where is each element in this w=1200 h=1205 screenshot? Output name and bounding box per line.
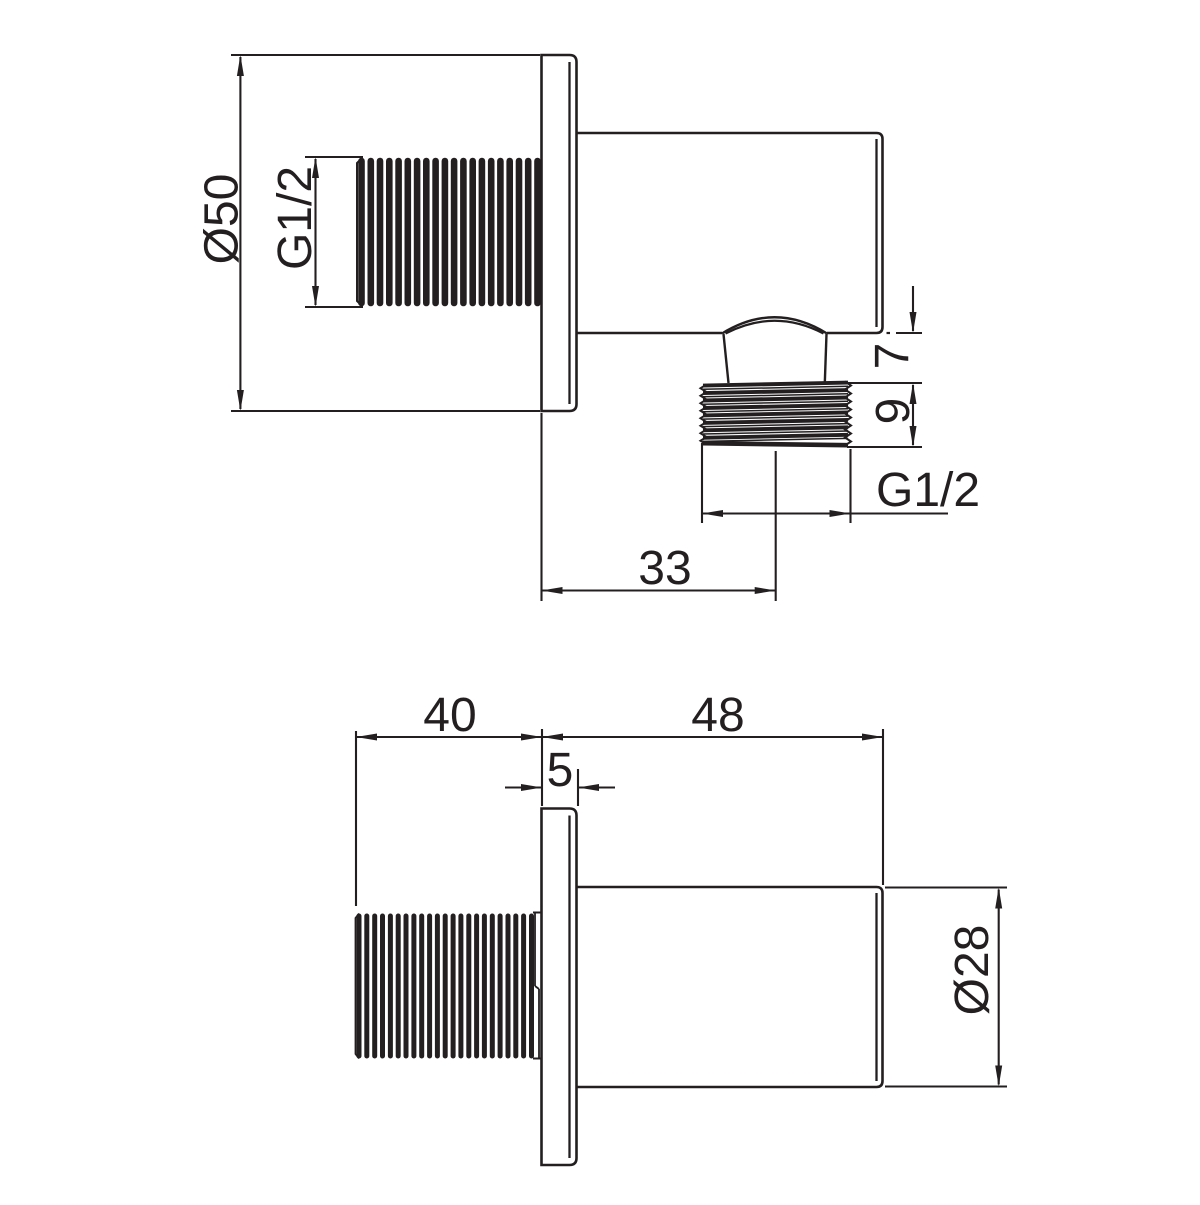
svg-text:G1/2: G1/2: [269, 166, 322, 270]
svg-text:48: 48: [691, 689, 744, 742]
svg-text:33: 33: [638, 542, 691, 595]
svg-text:9: 9: [867, 398, 920, 425]
svg-text:Ø28: Ø28: [946, 925, 999, 1016]
svg-text:Ø50: Ø50: [196, 174, 249, 265]
svg-text:40: 40: [423, 689, 476, 742]
svg-text:G1/2: G1/2: [876, 464, 980, 517]
svg-text:5: 5: [547, 744, 574, 797]
svg-text:7: 7: [866, 343, 919, 370]
